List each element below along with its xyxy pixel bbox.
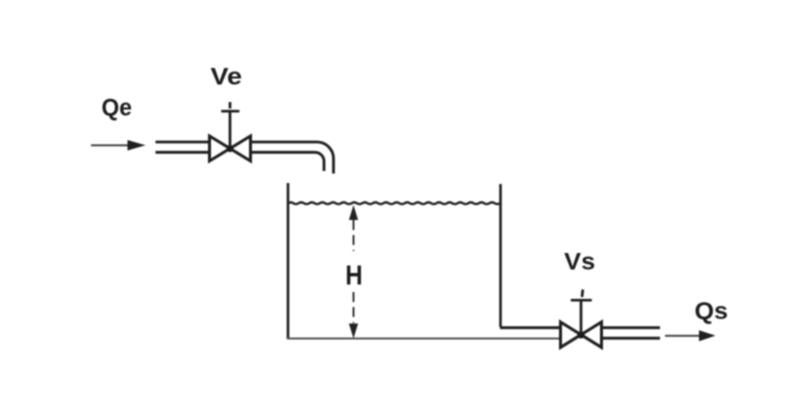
svg-text:Vs: Vs [564,249,595,276]
arrow Qe (inlet flow arrow) [91,140,146,151]
valve Ve (bowtie body) [210,136,251,161]
outlet pipe top line (from tank right wall to valve Vs) [500,326,562,329]
svg-text:Qe: Qe [102,94,132,121]
valve Ve stem and handle [221,102,239,149]
H dimension arrow (vertical, dashed, double-headed) [349,205,358,339]
tank left wall [287,183,290,339]
svg-text:Ve: Ve [211,64,243,91]
tank bottom [287,338,561,340]
tank right wall [499,184,502,327]
valve Vs stem and handle [571,290,592,335]
water surface (wavy line) [288,202,500,204]
pipe from valve Ve to elbow into tank [249,142,334,174]
svg-text:Qs: Qs [695,298,729,325]
valve Vs (bowtie body) [561,322,602,347]
svg-text:H: H [345,260,362,291]
pipe inlet (double line before valve Ve) [156,142,212,152]
pipe after valve Vs (double line) [600,328,660,339]
arrow Qs (outlet flow arrow) [665,330,716,341]
